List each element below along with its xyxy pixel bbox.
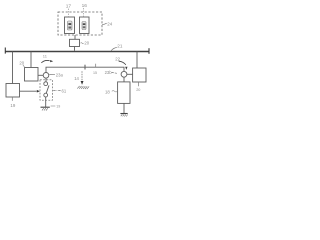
power line 21 (bus) — [5, 51, 149, 53]
wire bus to box 20 mid — [30, 52, 32, 68]
hatched body strip — [77, 86, 89, 89]
switch contact lower — [44, 93, 48, 97]
ground right — [120, 114, 127, 117]
svg-text:23b: 23b — [105, 70, 113, 75]
leader 61 — [53, 90, 61, 92]
leader 23a — [49, 73, 55, 75]
leader 24 — [102, 23, 107, 25]
svg-text:19: 19 — [10, 103, 15, 108]
leader 20 mid — [23, 65, 25, 68]
bus left end tick — [4, 48, 6, 54]
wire dashed box to box 20 top — [74, 35, 76, 39]
wire box 20 top to bus — [74, 47, 76, 51]
switch contact upper — [44, 82, 48, 86]
dashed drop from wire — [81, 71, 83, 81]
arrow box 19 to switch 61 — [20, 90, 40, 93]
leader 17 — [68, 9, 70, 17]
svg-text:16: 16 — [82, 3, 88, 9]
box 20 (right) — [133, 68, 146, 82]
leader 16 — [83, 8, 85, 17]
arrow 22 — [119, 61, 128, 70]
switch blade — [46, 85, 49, 93]
svg-text:18: 18 — [105, 89, 110, 94]
svg-text:21: 21 — [117, 43, 123, 48]
wire 23b to box 20 right — [127, 73, 133, 75]
tick under box 19 — [11, 97, 13, 101]
svg-text:61: 61 — [62, 88, 67, 93]
box 19 — [6, 84, 20, 98]
svg-text:20: 20 — [19, 61, 24, 66]
load 17 inner element — [68, 21, 73, 30]
sub line wire from 23a to 23b — [46, 67, 124, 72]
load box 17 — [65, 17, 75, 34]
wire 23a to switch 61 — [45, 78, 47, 82]
connector 23b — [121, 71, 127, 77]
leader 18 — [112, 91, 118, 92]
wire box 18 to ground — [123, 103, 125, 113]
arrow 11 — [41, 60, 53, 63]
leader ground label — [51, 105, 56, 107]
leader 23b — [112, 72, 118, 73]
box 20 (top) — [70, 39, 80, 46]
connector 23a — [43, 73, 49, 79]
box 18 — [118, 82, 130, 104]
load 16 inner element — [82, 22, 86, 30]
svg-text:23a: 23a — [56, 73, 64, 78]
box 20 (mid left) — [25, 68, 39, 82]
svg-text:20: 20 — [84, 41, 89, 46]
switch 61 dashed box — [40, 80, 53, 100]
wire bus to box 19 — [12, 52, 14, 84]
svg-text:15: 15 — [93, 71, 97, 75]
ground mid — [41, 107, 50, 110]
down arrowhead 14 — [81, 81, 84, 85]
svg-text:22: 22 — [115, 57, 120, 62]
svg-text:14: 14 — [74, 76, 79, 81]
connector 14 bar on wire — [84, 65, 86, 70]
tick 15 on wire — [95, 64, 97, 67]
svg-text:19: 19 — [56, 104, 60, 108]
label 20 top with tilde leader — [81, 43, 84, 44]
wire box 20 mid to connector 23a — [38, 74, 43, 76]
bus right end tick — [148, 48, 150, 54]
unit 24 dashed box — [58, 12, 102, 35]
wire bus to box 20 right — [136, 52, 138, 69]
svg-text:20: 20 — [136, 88, 140, 92]
leader 21 — [111, 48, 117, 51]
wire switch to ground — [45, 97, 47, 107]
svg-text:24: 24 — [107, 21, 112, 26]
wire 23b to box 18 — [123, 77, 125, 82]
tick under box 20 right — [138, 82, 140, 86]
load box 16 — [80, 17, 90, 34]
